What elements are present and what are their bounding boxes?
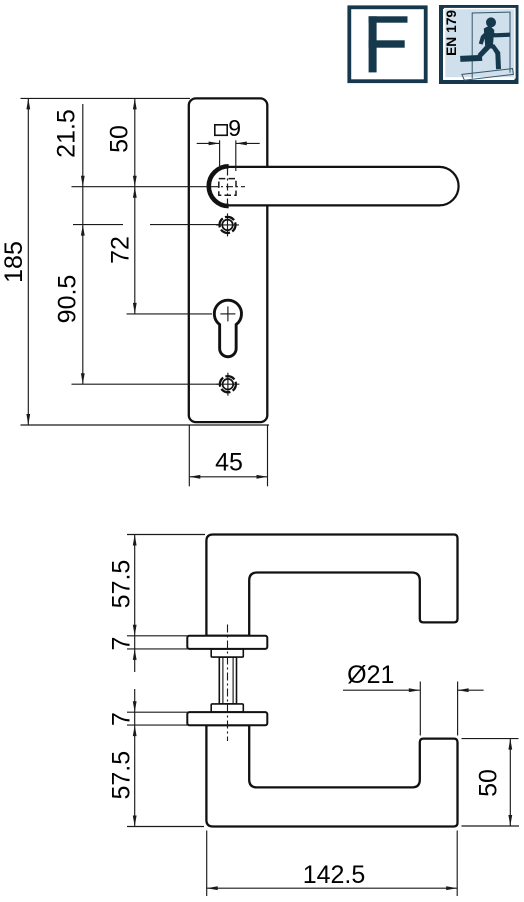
svg-text:50: 50	[105, 125, 133, 153]
svg-text:72: 72	[106, 236, 134, 264]
svg-text:7: 7	[107, 637, 135, 651]
svg-text:185: 185	[0, 241, 28, 283]
svg-text:9: 9	[228, 115, 241, 141]
svg-text:Ø21: Ø21	[347, 661, 394, 689]
svg-text:57.5: 57.5	[107, 560, 135, 609]
svg-text:50: 50	[474, 769, 502, 797]
svg-text:57.5: 57.5	[107, 751, 135, 800]
svg-text:7: 7	[107, 712, 135, 726]
svg-text:EN 179: EN 179	[444, 10, 459, 56]
svg-text:90.5: 90.5	[53, 275, 81, 324]
svg-text:45: 45	[215, 449, 243, 477]
svg-text:142.5: 142.5	[303, 861, 366, 889]
svg-text:21.5: 21.5	[52, 109, 80, 158]
